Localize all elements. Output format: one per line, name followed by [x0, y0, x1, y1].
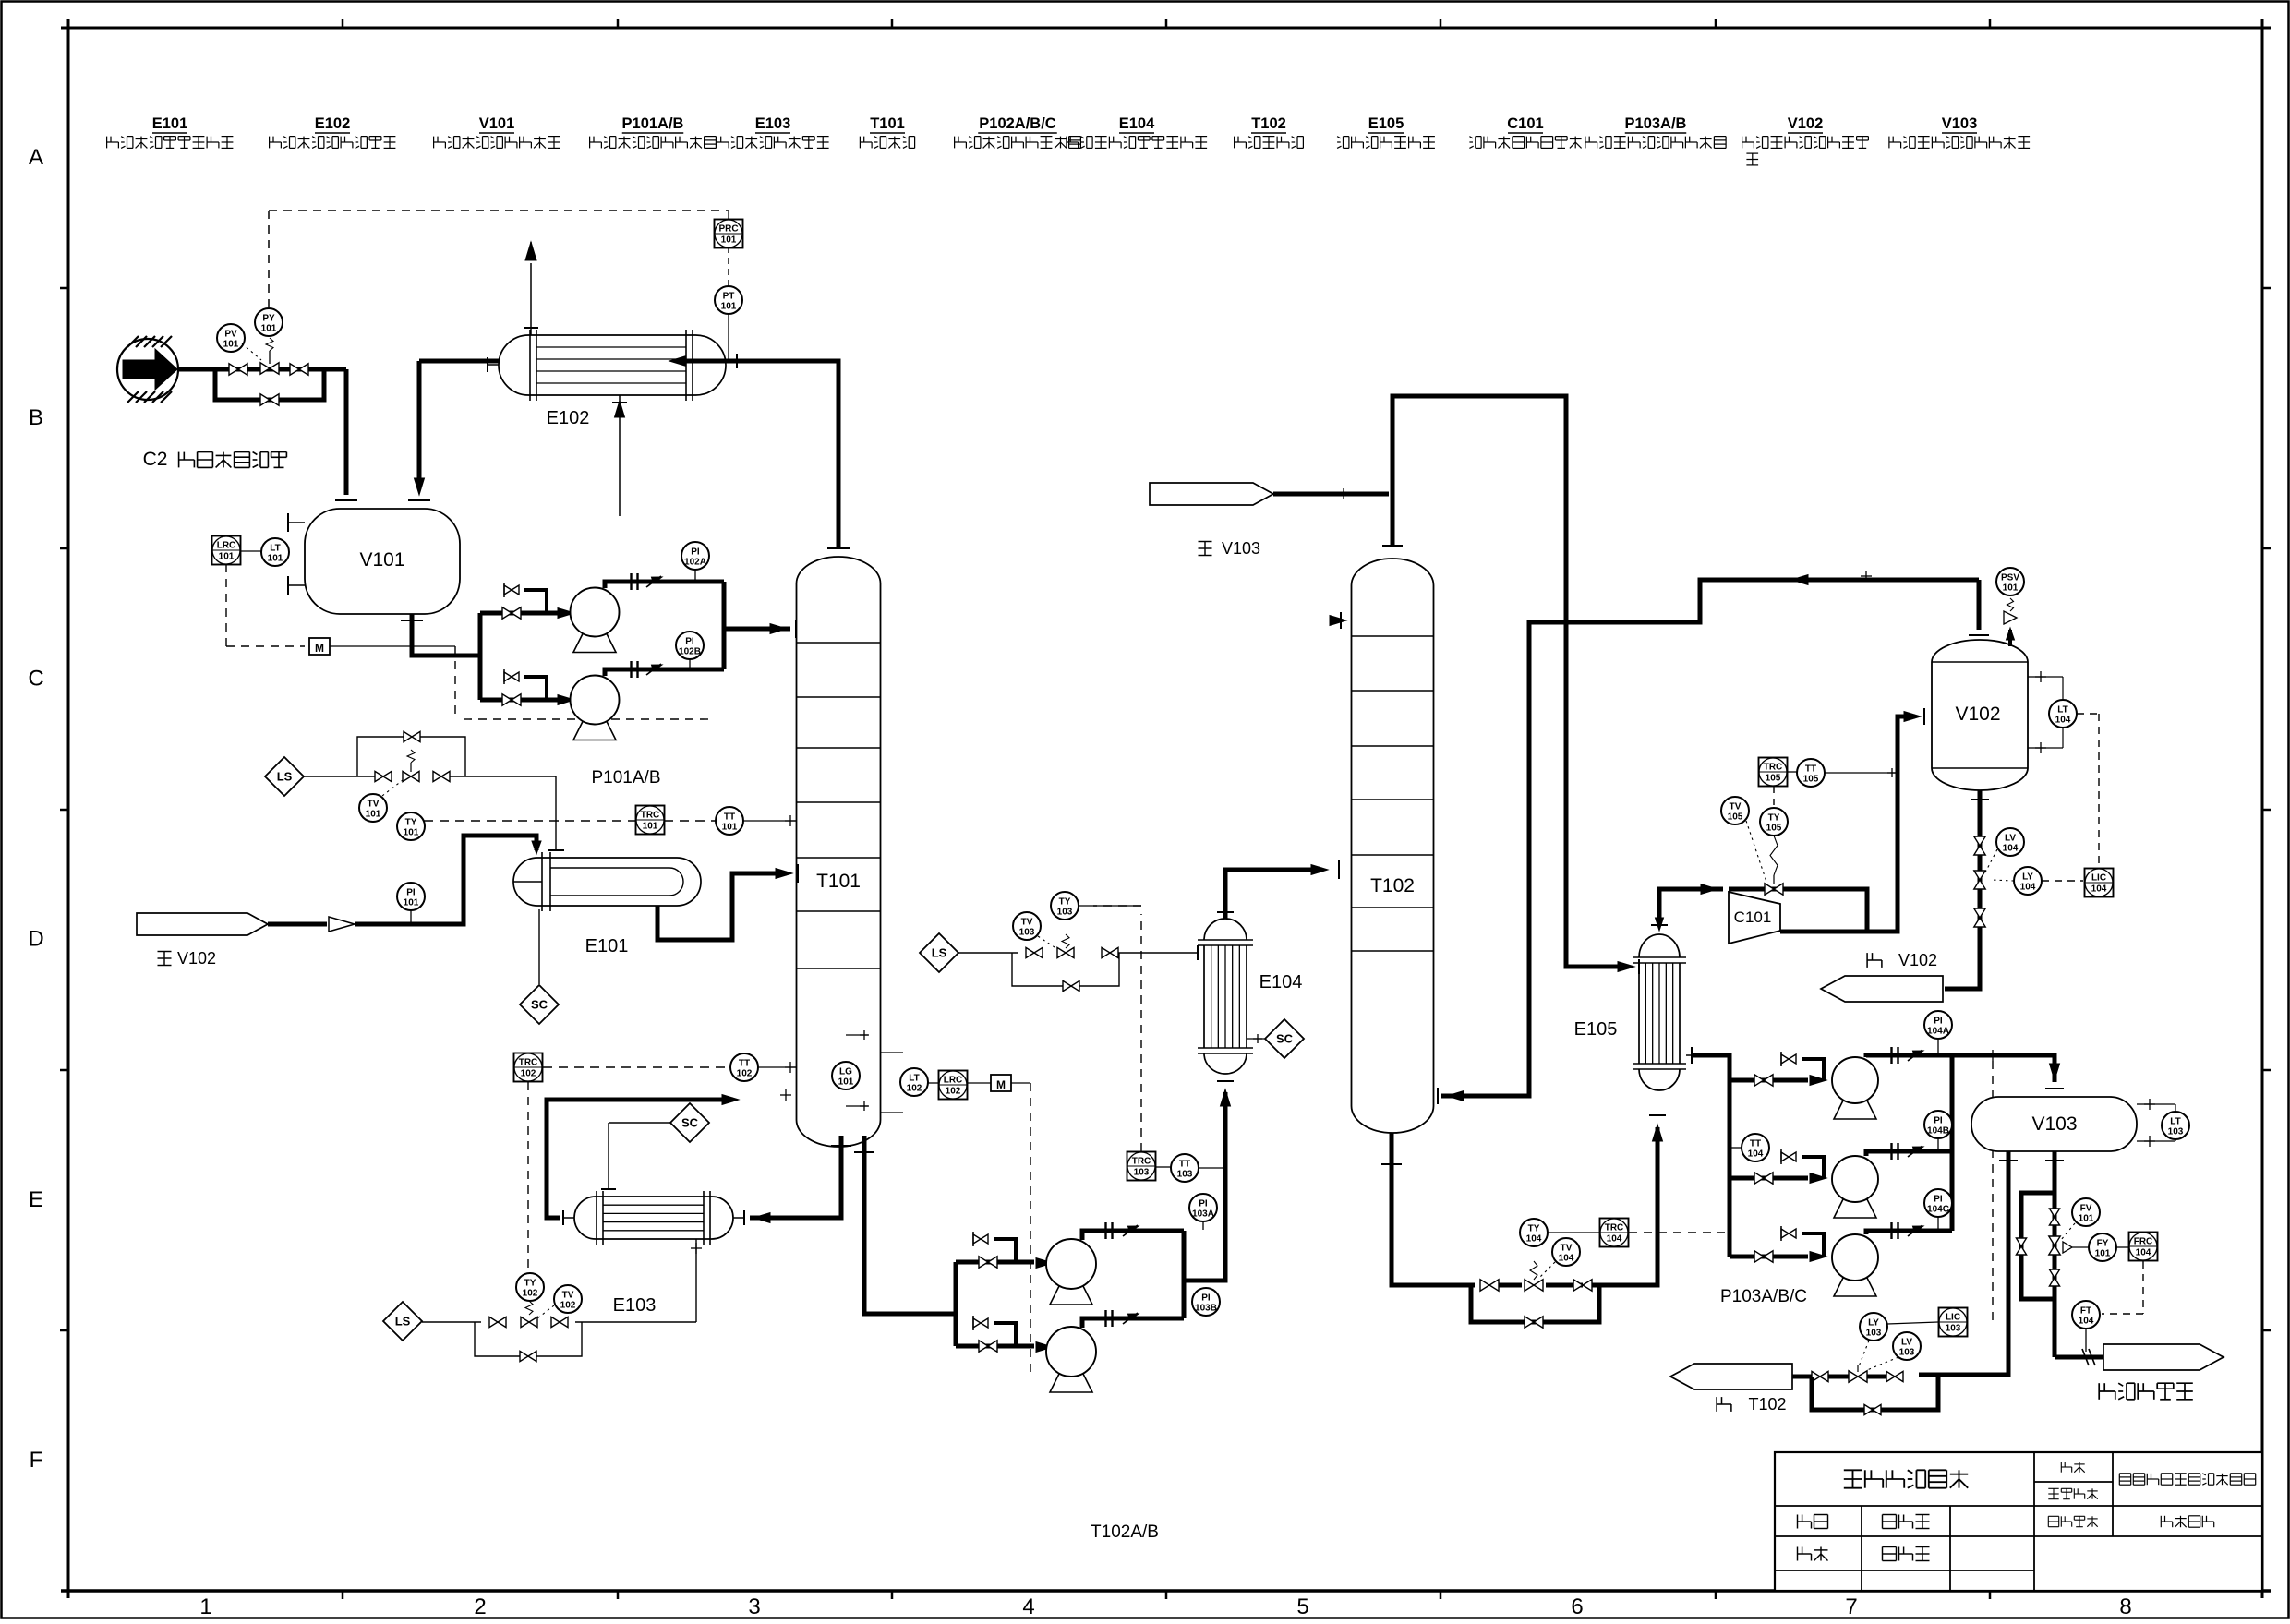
svg-text:105: 105 — [1803, 775, 1819, 785]
svg-text:LIC: LIC — [2091, 873, 2106, 884]
svg-text:E101: E101 — [585, 936, 629, 956]
svg-text:LT: LT — [2170, 1117, 2180, 1127]
svg-text:1: 1 — [199, 1594, 211, 1619]
svg-text:T102: T102 — [1251, 115, 1286, 132]
svg-text:104B: 104B — [1927, 1126, 1949, 1137]
svg-text:103: 103 — [1019, 928, 1035, 938]
svg-text:102: 102 — [521, 1069, 536, 1079]
svg-text:LY: LY — [2022, 872, 2033, 883]
svg-text:5: 5 — [1296, 1594, 1308, 1619]
svg-text:101: 101 — [721, 235, 737, 246]
svg-text:P103A/B/C: P103A/B/C — [1720, 1287, 1807, 1306]
svg-text:FY: FY — [2097, 1239, 2109, 1249]
svg-text:104A: 104A — [1927, 1027, 1949, 1037]
svg-text:V101: V101 — [359, 549, 404, 571]
svg-text:PI: PI — [406, 888, 416, 898]
svg-text:LRC: LRC — [944, 1076, 963, 1086]
svg-text:TV: TV — [562, 1291, 574, 1301]
svg-text:LRC: LRC — [217, 541, 236, 551]
svg-text:FRC: FRC — [2134, 1237, 2153, 1247]
svg-text:105: 105 — [1728, 812, 1743, 823]
svg-text:T101: T101 — [816, 871, 861, 892]
svg-text:104: 104 — [1748, 1149, 1764, 1160]
svg-text:LV: LV — [2005, 834, 2016, 844]
svg-text:104: 104 — [2136, 1248, 2151, 1258]
svg-text:PRC: PRC — [718, 224, 738, 235]
svg-text:E103: E103 — [755, 115, 791, 132]
svg-text:102: 102 — [907, 1084, 922, 1094]
svg-text:F: F — [30, 1448, 43, 1473]
svg-text:101: 101 — [219, 552, 235, 562]
svg-text:TY: TY — [1768, 813, 1780, 824]
svg-text:P102A/B/C: P102A/B/C — [979, 115, 1056, 132]
svg-text:104: 104 — [1559, 1254, 1574, 1264]
svg-text:4: 4 — [1022, 1594, 1034, 1619]
svg-text:103: 103 — [1946, 1324, 1961, 1334]
svg-text:TT: TT — [1750, 1139, 1761, 1149]
svg-text:103: 103 — [1134, 1168, 1150, 1178]
svg-text:101: 101 — [223, 340, 239, 350]
svg-text:V103: V103 — [1222, 539, 1260, 558]
svg-text:E: E — [29, 1187, 43, 1212]
svg-text:TRC: TRC — [641, 811, 660, 821]
svg-text:104: 104 — [2091, 884, 2107, 895]
svg-text:E105: E105 — [1574, 1019, 1618, 1040]
svg-text:101: 101 — [838, 1077, 854, 1088]
svg-text:101: 101 — [404, 828, 419, 838]
svg-text:E102: E102 — [547, 408, 590, 428]
svg-text:V102: V102 — [1955, 704, 2000, 725]
svg-text:P101A/B: P101A/B — [592, 768, 661, 788]
svg-text:103: 103 — [1177, 1170, 1193, 1180]
svg-text:103: 103 — [1866, 1329, 1882, 1339]
svg-text:FT: FT — [2080, 1306, 2091, 1317]
svg-text:V103: V103 — [1942, 115, 1978, 132]
svg-text:TV: TV — [1730, 802, 1742, 812]
svg-text:104: 104 — [2079, 1317, 2094, 1327]
svg-text:C2: C2 — [143, 449, 168, 470]
svg-text:7: 7 — [1845, 1594, 1857, 1619]
svg-text:C101: C101 — [1734, 908, 1772, 926]
svg-text:PI: PI — [691, 547, 700, 558]
svg-text:SC: SC — [681, 1116, 699, 1130]
svg-text:101: 101 — [2003, 583, 2019, 594]
svg-text:105: 105 — [1766, 824, 1782, 834]
svg-text:SC: SC — [531, 998, 548, 1012]
svg-text:PI: PI — [1199, 1199, 1208, 1209]
svg-text:LG: LG — [839, 1067, 852, 1077]
svg-text:LV: LV — [1901, 1338, 1912, 1348]
svg-text:103: 103 — [2168, 1127, 2184, 1137]
svg-text:E103: E103 — [613, 1295, 657, 1316]
svg-text:102B: 102B — [679, 647, 701, 657]
svg-text:TT: TT — [739, 1059, 750, 1069]
svg-text:LT: LT — [909, 1074, 919, 1084]
svg-text:LT: LT — [2057, 705, 2067, 716]
svg-text:101: 101 — [643, 822, 658, 832]
svg-text:FV: FV — [2080, 1204, 2092, 1214]
svg-text:TY: TY — [524, 1279, 536, 1289]
svg-text:104: 104 — [2055, 716, 2071, 726]
svg-text:TRC: TRC — [519, 1058, 538, 1068]
svg-text:104: 104 — [2020, 883, 2036, 893]
svg-text:LT: LT — [270, 544, 280, 554]
svg-text:D: D — [28, 927, 43, 952]
svg-text:103B: 103B — [1195, 1304, 1217, 1314]
svg-text:102: 102 — [737, 1069, 753, 1079]
svg-text:PI: PI — [1201, 1293, 1211, 1304]
svg-text:103: 103 — [1899, 1348, 1915, 1358]
svg-text:TT: TT — [1179, 1160, 1190, 1170]
svg-text:T102: T102 — [1748, 1395, 1786, 1413]
svg-text:E101: E101 — [152, 115, 188, 132]
svg-text:102: 102 — [560, 1301, 576, 1311]
svg-text:LS: LS — [932, 946, 947, 960]
svg-text:TV: TV — [368, 800, 380, 810]
svg-text:104: 104 — [1607, 1234, 1622, 1245]
svg-text:PI: PI — [1934, 1017, 1943, 1027]
svg-text:LS: LS — [395, 1315, 411, 1329]
svg-text:T102: T102 — [1370, 875, 1415, 896]
svg-text:TRC: TRC — [1764, 763, 1783, 773]
svg-text:PI: PI — [685, 637, 694, 647]
svg-text:V102: V102 — [177, 949, 216, 968]
svg-text:8: 8 — [2119, 1594, 2131, 1619]
svg-text:C101: C101 — [1507, 115, 1543, 132]
svg-text:B: B — [29, 405, 43, 430]
svg-text:TV: TV — [1021, 918, 1033, 928]
svg-text:104C: 104C — [1927, 1205, 1949, 1215]
svg-text:101: 101 — [722, 823, 738, 833]
svg-text:E102: E102 — [315, 115, 351, 132]
svg-text:101: 101 — [2079, 1214, 2094, 1224]
svg-text:104: 104 — [1526, 1234, 1542, 1245]
svg-text:E105: E105 — [1368, 115, 1404, 132]
svg-text:TV: TV — [1561, 1244, 1573, 1254]
svg-text:101: 101 — [2095, 1249, 2111, 1259]
svg-text:PT: PT — [723, 292, 735, 302]
svg-text:TRC: TRC — [1132, 1157, 1151, 1167]
svg-text:103A: 103A — [1192, 1209, 1214, 1220]
svg-text:PV: PV — [224, 330, 237, 340]
svg-text:LIC: LIC — [1946, 1313, 1960, 1323]
svg-text:P103A/B: P103A/B — [1625, 115, 1687, 132]
svg-text:102: 102 — [523, 1289, 538, 1299]
svg-text:101: 101 — [404, 898, 419, 908]
svg-text:TY: TY — [1528, 1224, 1540, 1234]
svg-text:V103: V103 — [2031, 1113, 2077, 1135]
svg-text:LS: LS — [277, 770, 293, 784]
svg-text:104: 104 — [2003, 844, 2019, 854]
svg-text:101: 101 — [366, 810, 381, 820]
svg-text:V102: V102 — [1898, 951, 1937, 969]
svg-text:P101A/B: P101A/B — [622, 115, 684, 132]
svg-text:101: 101 — [261, 324, 277, 334]
svg-text:TT: TT — [1805, 764, 1816, 775]
svg-text:PSV: PSV — [2001, 573, 2019, 583]
svg-text:102A: 102A — [684, 558, 706, 568]
svg-text:M: M — [315, 642, 324, 655]
svg-text:2: 2 — [474, 1594, 486, 1619]
svg-text:A: A — [29, 145, 43, 170]
svg-text:105: 105 — [1766, 774, 1781, 784]
svg-text:103: 103 — [1057, 908, 1073, 918]
svg-text:6: 6 — [1571, 1594, 1583, 1619]
svg-text:PY: PY — [262, 314, 275, 324]
svg-text:C: C — [28, 666, 43, 691]
svg-text:101: 101 — [721, 302, 737, 312]
svg-text:E104: E104 — [1119, 115, 1155, 132]
svg-text:TT: TT — [724, 812, 735, 823]
svg-text:102: 102 — [946, 1087, 961, 1097]
svg-text:M: M — [996, 1078, 1006, 1091]
svg-text:PI: PI — [1934, 1116, 1943, 1126]
svg-text:3: 3 — [748, 1594, 760, 1619]
svg-text:E104: E104 — [1259, 972, 1303, 992]
svg-text:TY: TY — [405, 818, 417, 828]
svg-text:SC: SC — [1276, 1032, 1294, 1046]
svg-text:PI: PI — [1934, 1195, 1943, 1205]
svg-text:V102: V102 — [1788, 115, 1824, 132]
svg-text:LY: LY — [1868, 1318, 1879, 1329]
svg-text:101: 101 — [268, 554, 283, 564]
svg-text:T101: T101 — [870, 115, 905, 132]
svg-text:T102A/B: T102A/B — [1091, 1522, 1159, 1542]
svg-text:V101: V101 — [479, 115, 515, 132]
svg-text:TRC: TRC — [1605, 1223, 1624, 1233]
svg-text:TY: TY — [1059, 897, 1071, 908]
